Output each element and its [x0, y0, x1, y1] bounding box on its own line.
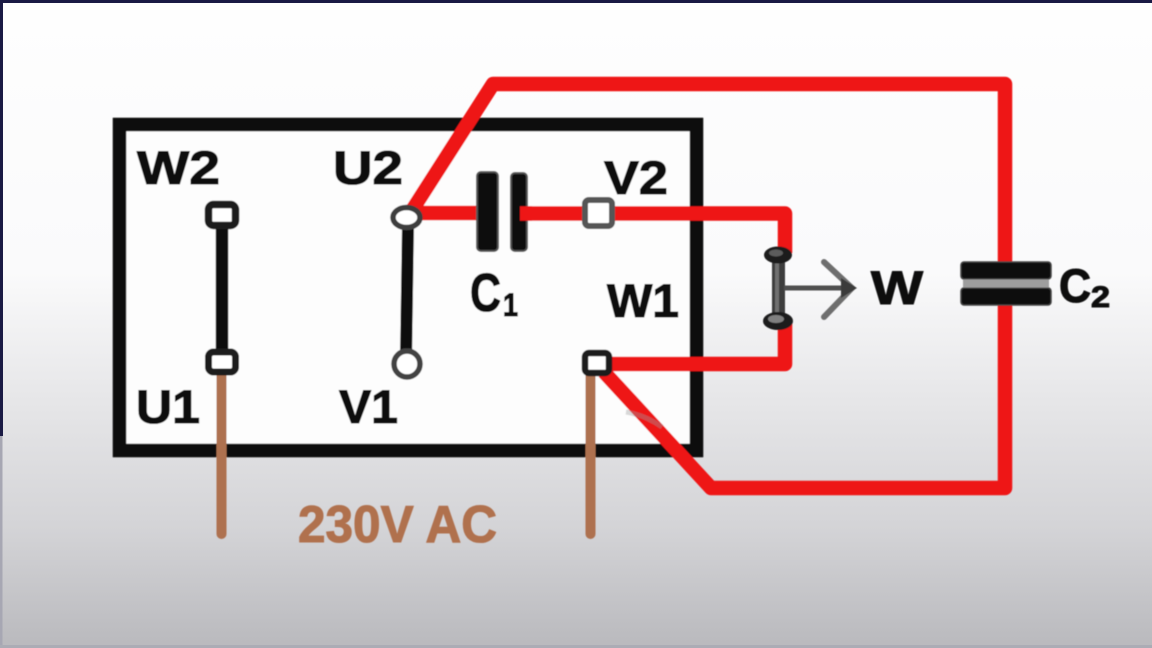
- svg-text:C: C: [470, 263, 501, 323]
- svg-text:2: 2: [1091, 281, 1110, 314]
- svg-text:W: W: [871, 261, 924, 314]
- svg-text:C: C: [1059, 259, 1091, 312]
- svg-text:V1: V1: [339, 380, 398, 433]
- svg-text:U2: U2: [333, 141, 403, 194]
- svg-text:U1: U1: [136, 380, 200, 433]
- svg-text:230V AC: 230V AC: [298, 496, 497, 554]
- svg-text:1: 1: [503, 287, 518, 323]
- svg-text:W2: W2: [137, 141, 220, 194]
- svg-text:V2: V2: [604, 151, 668, 204]
- svg-text:W1: W1: [607, 274, 679, 327]
